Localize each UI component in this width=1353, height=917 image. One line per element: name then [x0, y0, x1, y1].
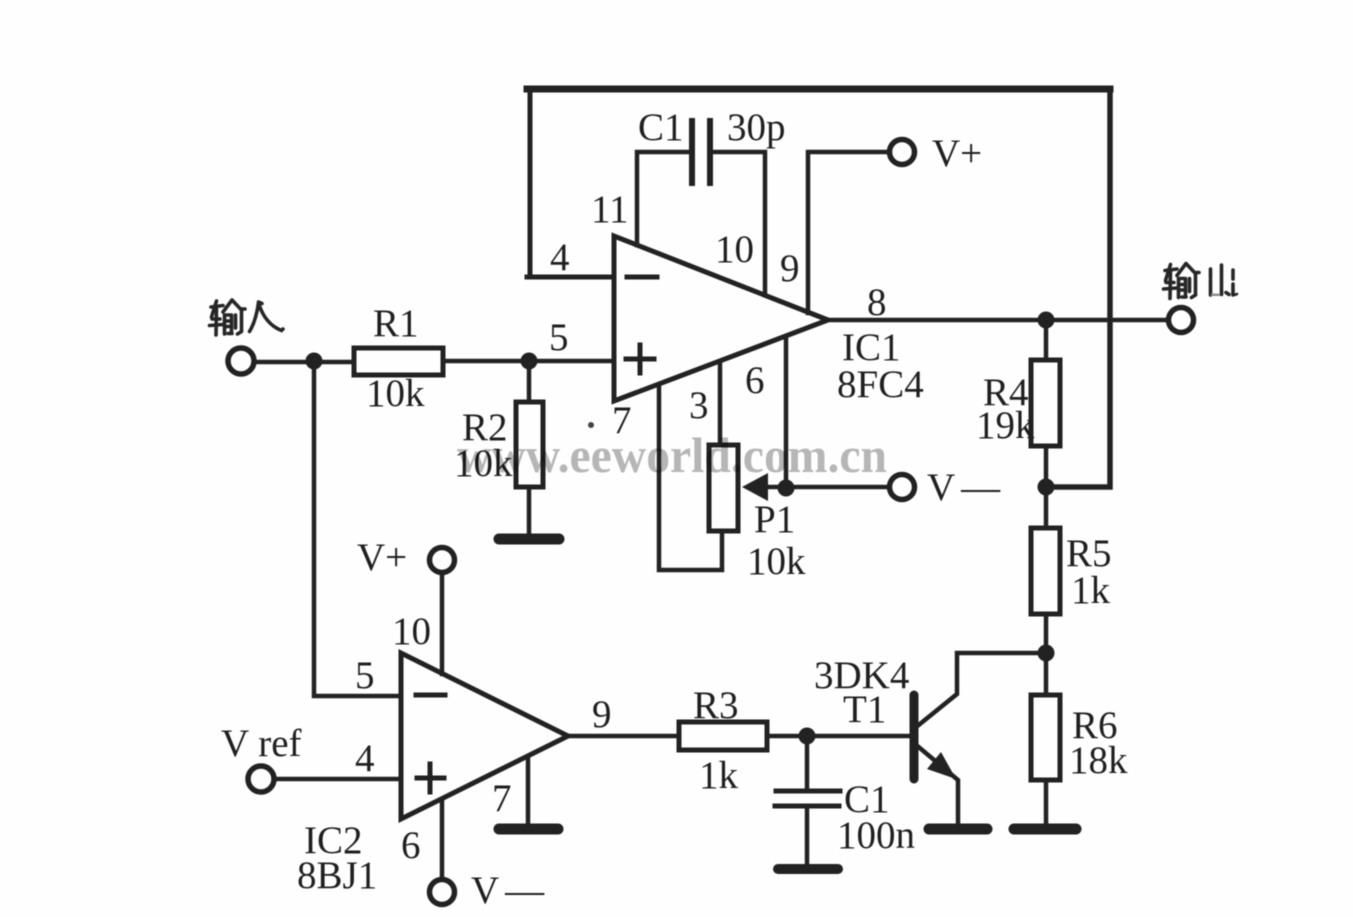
svg-text:V+: V+ [932, 132, 982, 175]
svg-text:8FC4: 8FC4 [837, 363, 924, 406]
svg-text:V—: V— [927, 466, 1001, 509]
wire: C1 left lead and pin 11 [637, 152, 692, 245]
wire: input node down to IC2 pin 5 [314, 361, 401, 696]
op-amp U1 minus input symbol [627, 275, 657, 280]
op-amp U2 minus input symbol [416, 693, 445, 698]
ground under R6 [1014, 824, 1076, 835]
input terminal [228, 348, 254, 374]
node: input junction [306, 353, 323, 370]
ground under T1 emitter [929, 824, 987, 835]
potentiometer P1 wiper arrow [742, 473, 768, 501]
svg-text:7: 7 [492, 777, 512, 820]
wire: input to R1 [255, 360, 354, 365]
wire: IC1 pin 7 to P1 bottom [659, 386, 722, 570]
svg-text:4: 4 [550, 236, 570, 279]
svg-text:5: 5 [549, 316, 569, 359]
svg-text:8BJ1: 8BJ1 [297, 854, 377, 897]
glyph chu (output) [1211, 265, 1238, 295]
wire: IC2 output pin 9 to R3 [568, 734, 679, 739]
wire: IC2 pin 6 down to V- [440, 800, 445, 879]
op-amp U2 plus input symbol [417, 764, 444, 792]
node: R3/C1(100n)/base junction [799, 728, 816, 745]
wire: C1 right lead and pin 10 [710, 152, 765, 295]
capacitor C1 100n [805, 736, 810, 790]
svg-text:P1: P1 [754, 498, 795, 541]
wire: IC1 pin 3 to P1 top [718, 363, 723, 445]
svg-text:T1: T1 [843, 688, 886, 731]
op-amp U1 plus input symbol [626, 345, 654, 373]
ground under C1 100n [778, 864, 838, 874]
svg-text:11: 11 [591, 188, 629, 231]
svg-text:18k: 18k [1069, 739, 1128, 782]
svg-text:R1: R1 [373, 302, 419, 345]
resistor R6 [1044, 653, 1049, 826]
svg-text:9: 9 [780, 247, 800, 290]
terminal: V- (IC1) [890, 475, 915, 500]
node: pin5/R2 junction [521, 353, 538, 370]
transistor Q1 emitter arrow [927, 752, 956, 779]
terminal: V+ (IC2) [430, 548, 455, 573]
op-amp U1 (IC1 8FC4) [614, 236, 828, 401]
svg-text:19k: 19k [976, 404, 1035, 447]
svg-text:10: 10 [715, 228, 754, 271]
glyph ru (input) [250, 302, 284, 332]
terminal: V ref [248, 766, 274, 792]
wire: R3 to T1 base [767, 734, 910, 739]
ground under IC2 pin 7 [499, 824, 558, 835]
wire: wiper to V- terminal [762, 485, 888, 490]
svg-text:6: 6 [401, 824, 421, 867]
svg-text:3: 3 [689, 384, 709, 427]
node: R5/R6/collector junction [1038, 645, 1055, 662]
wire: feedback right vertical rail [1046, 89, 1110, 487]
resistor R2 [527, 361, 532, 534]
svg-text:6: 6 [745, 359, 765, 402]
wire: R1 to IC1 pin 5 [443, 359, 614, 364]
transistor Q1 emitter [915, 744, 958, 827]
svg-text:9: 9 [592, 693, 612, 736]
transistor Q1 collector [915, 653, 1042, 728]
svg-text:www.eeworld.com.cn: www.eeworld.com.cn [457, 427, 887, 483]
svg-text:5: 5 [355, 654, 375, 697]
svg-text:30p: 30p [727, 106, 786, 149]
potentiometer P1 body [709, 445, 738, 531]
svg-text:R3: R3 [693, 684, 739, 727]
op-amp U2 (IC2 8BJ1) [401, 653, 568, 819]
speck artifact [588, 422, 594, 428]
node: pin6/V- junction [778, 480, 795, 497]
terminal: V- (IC2) [430, 880, 455, 905]
svg-text:10: 10 [392, 610, 431, 653]
node: R4/R5 junction [1038, 479, 1055, 496]
transistor Q1 (T1 3DK4) base bar [910, 695, 919, 779]
ground under R2 [499, 534, 559, 545]
wire: pin 8 output [828, 318, 1167, 323]
wire: feedback left vertical to pin 4 [527, 89, 614, 277]
resistor R3 [679, 722, 767, 750]
glyph shu (input) [210, 300, 246, 335]
svg-text:10k: 10k [747, 540, 806, 583]
svg-text:4: 4 [355, 737, 375, 780]
svg-text:1k: 1k [1071, 569, 1111, 612]
wire: IC1 pin 6 down to V- line [784, 337, 789, 488]
terminal: V+ (IC1) [890, 140, 915, 165]
wire: IC2 pin 7 to ground [526, 758, 531, 825]
svg-text:V—: V— [471, 869, 545, 912]
wire: V+ down to IC2 top edge [440, 573, 445, 674]
svg-text:1k: 1k [699, 754, 739, 797]
wire: feedback top rail [527, 86, 1110, 93]
svg-text:V+: V+ [357, 536, 407, 579]
node 输出 (output) glyphs [1164, 264, 1238, 299]
svg-text:V ref: V ref [221, 722, 302, 765]
svg-text:10k: 10k [366, 372, 425, 415]
svg-text:C1: C1 [638, 106, 684, 149]
node: output junction [1038, 312, 1055, 329]
glyph shu (output) [1164, 264, 1200, 299]
resistor R1 [354, 348, 443, 375]
terminal: output [1169, 308, 1194, 333]
resistor R5 [1044, 487, 1049, 653]
node 输入 (input) glyphs [210, 300, 284, 335]
resistor R4 [1044, 320, 1049, 487]
wire: V ref to IC2 plus input [276, 777, 401, 782]
svg-text:8: 8 [867, 281, 887, 324]
svg-text:100n: 100n [837, 814, 915, 857]
capacitor C1 30p plates [692, 121, 710, 183]
wire: pin 9 to V+ [808, 152, 888, 313]
